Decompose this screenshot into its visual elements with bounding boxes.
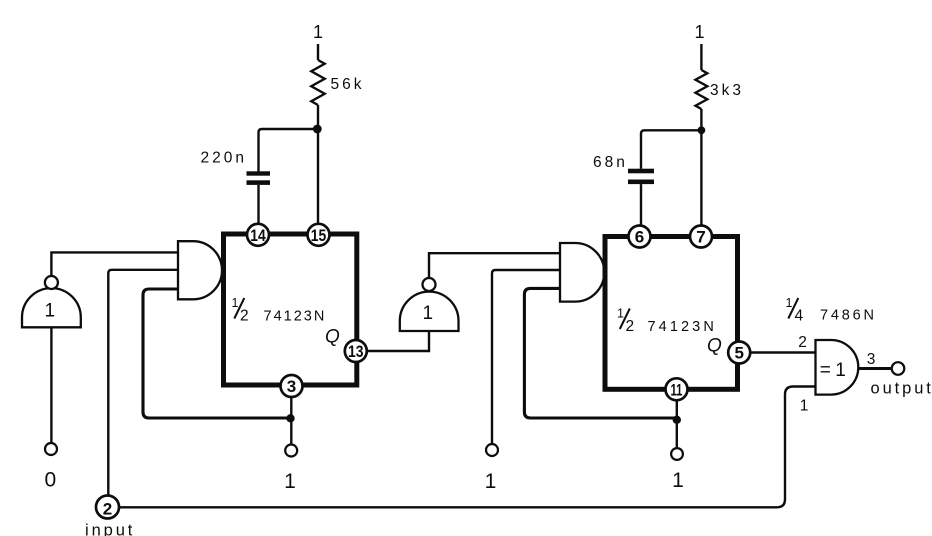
svg-text:3: 3 [867, 351, 876, 368]
label 1/2 74123N [617, 307, 717, 336]
svg-text:2: 2 [798, 334, 807, 351]
svg-text:1: 1 [313, 22, 323, 42]
svg-text:1: 1 [694, 22, 704, 42]
svg-text:5: 5 [734, 344, 743, 363]
inverter gate N1 [22, 276, 81, 327]
AND gate A1 [178, 241, 222, 299]
svg-text:1: 1 [800, 398, 809, 415]
pin 7 [690, 226, 712, 248]
svg-text:74123N: 74123N [264, 309, 327, 325]
pin 15 [308, 224, 330, 246]
IC U1 1/2 74123N body [224, 234, 357, 385]
inverter gate N2 [400, 278, 459, 331]
wire XOR output to terminal [858, 367, 891, 370]
svg-text:Q: Q [707, 336, 722, 357]
svg-text:2: 2 [103, 499, 112, 518]
junction below pin 11 [673, 416, 681, 424]
wire node RC2 to C2 [641, 130, 699, 169]
wire node RC1 to C1 [259, 129, 316, 172]
pin 3 [281, 375, 303, 397]
terminal output [892, 362, 905, 375]
resistor R1 56k [311, 60, 324, 105]
wire A2 bottom input wrap to node at pin 11 [524, 288, 675, 418]
wire input bus to XOR pin 1 [119, 387, 816, 508]
wire pin 3 down [290, 397, 292, 445]
svg-text:1: 1 [423, 303, 434, 324]
wire pin 13 to N2 input [367, 331, 429, 351]
svg-text:1: 1 [835, 360, 846, 381]
svg-text:15: 15 [311, 226, 327, 245]
svg-text:1: 1 [786, 296, 793, 310]
wire R1 to node RC1 [317, 105, 319, 234]
IC U2 1/2 74123N body [605, 237, 738, 390]
wire pin 5 to XOR input 2 [751, 351, 816, 353]
svg-text:=: = [820, 360, 831, 381]
junction below pin 3 [286, 414, 294, 422]
svg-text:output: output [871, 380, 932, 398]
svg-text:11: 11 [671, 380, 683, 399]
terminal 1 (clear U1) [285, 445, 297, 457]
wire Vcc to R2 [700, 44, 702, 70]
wire R2 to node RC2 [700, 109, 702, 227]
label 1/2 74123N [232, 296, 327, 325]
svg-text:4: 4 [795, 308, 804, 325]
wire C2 to pin 6 [640, 184, 642, 227]
junction node RC2 [698, 126, 706, 134]
svg-text:220n: 220n [201, 150, 247, 167]
svg-text:13: 13 [348, 342, 364, 361]
label 1/4 7486N [786, 296, 877, 325]
pin 6 [629, 226, 651, 248]
svg-text:1: 1 [617, 307, 624, 321]
svg-text:Q: Q [325, 327, 340, 348]
pin 13 [345, 340, 367, 362]
wire Vcc to R1 [317, 44, 319, 60]
wire pin 11 down [676, 401, 678, 449]
wire A2 middle input to terminal [492, 270, 560, 444]
wire input node to A1 middle input [108, 270, 178, 496]
svg-text:1: 1 [45, 301, 56, 322]
svg-text:6: 6 [635, 228, 644, 247]
svg-text:1: 1 [232, 296, 239, 310]
pin 11 [666, 378, 688, 400]
AND gate A2 [560, 243, 604, 302]
terminal 0 [45, 443, 57, 455]
wire N2 output to A2 top input [429, 253, 560, 278]
capacitor C1 220n [247, 171, 271, 185]
terminal 1 (clear U2) [671, 448, 683, 460]
svg-text:3: 3 [287, 377, 296, 396]
junction node RC1 [313, 125, 322, 134]
svg-text:7: 7 [696, 228, 705, 247]
wire A1 bottom input wrap to node at pin 3 [143, 289, 288, 418]
wire C1 to pin 14 [257, 185, 259, 225]
pin 5 [728, 342, 750, 364]
svg-text:56k: 56k [331, 76, 365, 93]
svg-text:14: 14 [250, 226, 266, 245]
svg-text:3k3: 3k3 [710, 82, 744, 99]
svg-text:1: 1 [672, 469, 684, 492]
svg-text:1: 1 [485, 470, 497, 493]
pin 14 [247, 224, 269, 246]
wire N1 output to A1 top input [51, 252, 178, 276]
wire N1 input to terminal [50, 327, 52, 443]
svg-text:74123N: 74123N [648, 319, 717, 335]
svg-text:input: input [85, 522, 135, 536]
node input circle 2 [96, 496, 119, 519]
resistor R2 3k3 [696, 70, 708, 109]
svg-text:2: 2 [240, 308, 249, 325]
capacitor C2 68n [628, 169, 654, 184]
svg-text:68n: 68n [593, 154, 628, 171]
XOR gate G1 =1 [816, 340, 859, 395]
svg-text:2: 2 [626, 318, 635, 335]
svg-text:1: 1 [284, 470, 296, 493]
svg-text:7486N: 7486N [820, 308, 877, 324]
svg-text:0: 0 [44, 469, 56, 492]
terminal 1 (A2 input) [486, 444, 498, 456]
